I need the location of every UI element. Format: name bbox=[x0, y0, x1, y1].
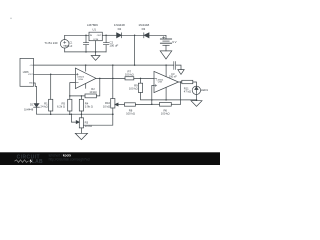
wire U1B output bbox=[179, 81, 182, 83]
svg-text:100 kΩ: 100 kΩ bbox=[161, 111, 170, 115]
ground battery bbox=[160, 51, 172, 59]
resistor R1 bbox=[49, 74, 53, 114]
wire COM stub bbox=[95, 41, 97, 56]
wiper R10 arrow bbox=[115, 103, 125, 106]
resistor R9 bbox=[138, 78, 196, 100]
resistor R6 bbox=[152, 102, 181, 106]
node bottom rail junctions bbox=[50, 113, 52, 115]
svg-text:R10: R10 bbox=[105, 101, 111, 105]
regulator U1 LM7809 bbox=[89, 32, 102, 41]
diode D2 bbox=[117, 33, 122, 38]
wire OR node column bbox=[134, 35, 136, 66]
wire bottom power rail bbox=[65, 51, 106, 53]
svg-text:10 kΩ: 10 kΩ bbox=[85, 124, 92, 128]
wiper R3 arrow bbox=[71, 114, 79, 123]
svg-text:100 uF: 100 uF bbox=[109, 43, 118, 47]
wire bottom rail bbox=[37, 113, 113, 115]
potentiometer R10 bbox=[84, 65, 115, 125]
svg-text:OUT: OUT bbox=[97, 35, 102, 37]
svg-text:24 kΩ: 24 kΩ bbox=[40, 104, 47, 108]
node rail junctions bbox=[85, 64, 87, 66]
svg-text:100 kΩ: 100 kΩ bbox=[125, 72, 134, 76]
svg-text:1N4448: 1N4448 bbox=[24, 108, 34, 112]
svg-text:6.2k Ω: 6.2k Ω bbox=[57, 104, 65, 108]
potentiometer R3 bbox=[79, 114, 83, 133]
IC LM35 bbox=[20, 58, 34, 86]
wire U1A V+ stub bbox=[85, 65, 87, 71]
node power rail junctions bbox=[95, 51, 97, 53]
capacitor C1 bbox=[83, 35, 88, 52]
logo CircuitLab bbox=[15, 155, 44, 166]
svg-text:U1B: U1B bbox=[158, 82, 163, 84]
wire U1B plus input bbox=[152, 86, 154, 105]
wire rail 9V bbox=[34, 64, 174, 66]
svg-text:R3: R3 bbox=[85, 120, 89, 124]
svg-text:LAB: LAB bbox=[32, 159, 43, 165]
node U1B output junction bbox=[180, 81, 182, 83]
LED1 indicator bbox=[192, 86, 200, 94]
ground R3 bbox=[75, 133, 87, 139]
svg-text:D1: D1 bbox=[30, 102, 34, 106]
diode D1 bbox=[34, 104, 40, 115]
svg-text:3.9k Ω: 3.9k Ω bbox=[85, 104, 93, 108]
svg-text:330 uF: 330 uF bbox=[65, 46, 73, 48]
resistor R8 bbox=[124, 103, 151, 106]
capacitor C2 bbox=[103, 35, 108, 52]
ground power supply bbox=[91, 56, 100, 61]
svg-text:D2: D2 bbox=[118, 27, 122, 31]
svg-text:100 kΩ: 100 kΩ bbox=[129, 87, 138, 91]
svg-text:10 kΩ: 10 kΩ bbox=[103, 105, 110, 109]
svg-text:LED1: LED1 bbox=[201, 88, 209, 92]
wire feedback drop bbox=[180, 82, 182, 104]
wire top source to regulator bbox=[65, 34, 89, 36]
svg-text:VOUT: VOUT bbox=[28, 74, 33, 76]
resistor R2 feedback bbox=[70, 78, 100, 97]
wire U1A minus input bbox=[70, 83, 76, 96]
wire U1A output bbox=[96, 77, 125, 79]
svg-text:T1 B1 240: T1 B1 240 bbox=[44, 41, 58, 45]
node U1A output junctions bbox=[99, 78, 101, 80]
wire U1A V- stub bbox=[85, 84, 87, 89]
resistor R4 bbox=[79, 95, 83, 114]
voltage source V1 bbox=[60, 35, 69, 52]
battery V2 9V bbox=[160, 36, 171, 51]
op-amp U1A bbox=[75, 68, 96, 89]
svg-text:U1: U1 bbox=[92, 28, 96, 32]
svg-text:LM7809: LM7809 bbox=[87, 23, 98, 27]
node U1B plus input junctions bbox=[151, 99, 153, 101]
wire D2 to D3 bbox=[122, 34, 144, 36]
node stray dot top-left bbox=[10, 18, 12, 20]
resistor R7 bbox=[125, 77, 154, 80]
svg-text:10 kΩ: 10 kΩ bbox=[89, 90, 96, 94]
footer bar bbox=[0, 152, 220, 165]
svg-text:100 kΩ: 100 kΩ bbox=[126, 112, 135, 116]
wire regulator OUT bbox=[102, 34, 116, 36]
svg-text:D3: D3 bbox=[142, 27, 146, 31]
svg-text:9 V: 9 V bbox=[172, 40, 176, 44]
svg-text:U1A: U1A bbox=[78, 78, 83, 81]
node R1 tap junction bbox=[50, 74, 52, 76]
diode D3 bbox=[144, 33, 149, 38]
ground C3 bbox=[178, 70, 184, 75]
resistor R11 bbox=[182, 80, 197, 86]
wire LM35 pin2 out bbox=[34, 73, 76, 75]
svg-text:http://circuitlab.com/cegh7w3: http://circuitlab.com/cegh7w3 bbox=[49, 158, 90, 162]
op-amp U1B bbox=[154, 71, 179, 92]
node diode OR junction bbox=[134, 35, 136, 37]
wire U1B V+ stub bbox=[165, 65, 167, 76]
resistor R5 bbox=[68, 95, 72, 114]
capacitor C3 bbox=[174, 62, 181, 70]
wire D3 to battery bbox=[149, 35, 166, 39]
wire LM35 pin3 gnd bbox=[34, 83, 37, 104]
wire U1B V- stub bbox=[165, 87, 167, 100]
svg-text:47 kΩ: 47 kΩ bbox=[184, 89, 191, 93]
ground LED bbox=[191, 94, 202, 106]
